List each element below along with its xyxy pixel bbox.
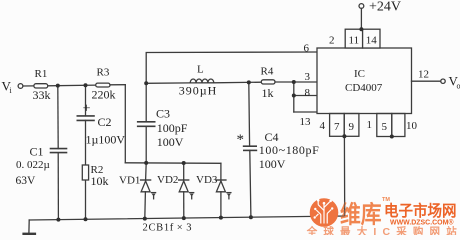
- svg-text:100pF: 100pF: [157, 121, 188, 135]
- svg-text:100~180pF: 100~180pF: [259, 143, 320, 157]
- wire Vi to R1: [23, 85, 34, 87]
- node bus/VD1: [143, 217, 147, 221]
- svg-text:+24V: +24V: [369, 0, 401, 15]
- node bus/VD2: [182, 216, 186, 220]
- svg-text:C3: C3: [156, 107, 170, 121]
- wire L to R4: [214, 81, 261, 84]
- resistor R3: [96, 83, 110, 87]
- svg-text:*: *: [237, 132, 245, 148]
- svg-text:1k: 1k: [262, 86, 274, 100]
- varactor mark VD2: [190, 193, 194, 199]
- svg-text:6: 6: [304, 43, 310, 55]
- node pins7-9 short: [342, 134, 346, 138]
- svg-text:VD2: VD2: [157, 174, 178, 186]
- svg-text:C2: C2: [98, 115, 112, 129]
- svg-text:VD1: VD1: [119, 175, 140, 187]
- svg-text:63V: 63V: [16, 175, 37, 187]
- capacitor C4: [244, 145, 257, 147]
- svg-text:7: 7: [334, 121, 340, 133]
- svg-text:4: 4: [320, 120, 326, 132]
- svg-text:CD4007: CD4007: [345, 82, 383, 94]
- resistor R2: [82, 165, 88, 180]
- pin box 5: [377, 114, 392, 137]
- node E pin3: [292, 80, 296, 84]
- wire R4 to pin3 node: [275, 81, 294, 83]
- node Vo output terminal: [441, 79, 445, 83]
- node H tie/VD2: [182, 161, 186, 165]
- svg-text:R3: R3: [97, 67, 110, 79]
- node bus/R2: [84, 217, 88, 221]
- resistor R4: [261, 80, 275, 84]
- node C main/L/C3/pin6: [144, 81, 148, 85]
- wire bus segment over watermark: [339, 215, 345, 217]
- wire diode tie line: [125, 162, 221, 165]
- node G tie/VD1: [144, 161, 148, 165]
- wire pin 13 into IC: [294, 111, 317, 113]
- svg-text:100V: 100V: [157, 135, 184, 149]
- svg-text:11: 11: [349, 35, 360, 47]
- diode VD2: [179, 163, 189, 218]
- diode VD3: [216, 163, 226, 218]
- wire +24V to pins 11,14: [360, 8, 362, 29]
- svg-text:33k: 33k: [33, 88, 51, 102]
- node bus/C1: [56, 218, 60, 222]
- svg-text:R1: R1: [35, 68, 48, 80]
- svg-text:IC: IC: [354, 68, 365, 80]
- wire pins 7,9 vertical over watermark: [344, 200, 346, 216]
- node Vi input terminal: [18, 84, 23, 89]
- svg-text:8: 8: [305, 87, 311, 99]
- svg-text:2: 2: [329, 35, 335, 47]
- resistor R1: [34, 84, 48, 88]
- pin box 9: [344, 114, 359, 137]
- svg-text:3: 3: [305, 71, 311, 83]
- node D main/C4: [247, 80, 251, 84]
- svg-text:o: o: [457, 82, 460, 91]
- svg-text:220k: 220k: [92, 88, 116, 102]
- wire C4 branch vertical: [248, 82, 251, 146]
- wire top rail up from junction: [146, 52, 317, 83]
- wire ground bus: [29, 216, 345, 220]
- wire C2/R2 branch vertical: [85, 85, 87, 116]
- node +24V/pins11-14: [359, 27, 363, 31]
- node bus/VD3: [219, 216, 223, 220]
- wire R3 arm down to diode tie line: [124, 85, 126, 163]
- svg-text:VD3: VD3: [196, 174, 218, 186]
- svg-text:1: 1: [367, 119, 373, 131]
- wire node vertical 3-8-13: [293, 82, 295, 112]
- svg-text:2CB1f × 3: 2CB1f × 3: [143, 223, 193, 234]
- watermark logo disc: [310, 198, 339, 227]
- capacitor C2: [77, 115, 94, 117]
- wire pins 7,9 to ground bus: [343, 136, 345, 216]
- svg-text:390µH: 390µH: [179, 84, 218, 98]
- wire pin 3 into IC: [294, 81, 317, 83]
- wire pin 8 into IC: [294, 95, 317, 97]
- varactor mark VD1: [152, 193, 156, 199]
- diode VD1: [141, 163, 151, 219]
- svg-text:0. 022µ: 0. 022µ: [16, 159, 50, 171]
- wire C3 vertical: [145, 83, 147, 122]
- node pins5-10 short: [390, 135, 394, 139]
- svg-text:9: 9: [349, 121, 355, 133]
- svg-text:+: +: [83, 102, 91, 117]
- svg-text:R4: R4: [261, 66, 274, 78]
- node bus/C4: [249, 215, 253, 219]
- pin box 11: [345, 29, 362, 48]
- ground: [28, 220, 30, 233]
- wire R1 to R3 main rail: [48, 84, 96, 87]
- svg-text:L: L: [197, 64, 204, 76]
- svg-text:13: 13: [300, 116, 312, 128]
- svg-text:12: 12: [418, 69, 429, 81]
- pin box 10: [392, 114, 405, 137]
- node A main/C1: [56, 84, 60, 88]
- svg-text:5: 5: [382, 121, 388, 133]
- power +24V terminal: [359, 4, 364, 9]
- svg-text:100V: 100V: [259, 157, 286, 171]
- capacitor C1: [51, 148, 67, 150]
- svg-text:10k: 10k: [91, 174, 109, 188]
- node B main/C2: [84, 83, 88, 87]
- wire C1 branch vertical: [57, 86, 59, 149]
- svg-text:1µ100V: 1µ100V: [86, 133, 126, 147]
- svg-text:14: 14: [366, 35, 378, 47]
- capacitor C3: [138, 121, 155, 123]
- svg-text:C1: C1: [30, 145, 44, 159]
- svg-text:10: 10: [406, 120, 418, 132]
- svg-text:维库: 维库: [340, 201, 382, 229]
- IC U1 CD4007 body: [317, 48, 412, 114]
- varactor mark VD3: [227, 193, 231, 199]
- wire main rail junction to L: [146, 82, 190, 84]
- inductor L: [190, 79, 214, 83]
- pin box 14: [363, 29, 380, 48]
- pin box 7: [330, 114, 345, 137]
- node F pin8: [292, 94, 296, 98]
- wire pin 12 to Vo: [412, 80, 441, 82]
- wire R3 right to corner: [110, 84, 125, 86]
